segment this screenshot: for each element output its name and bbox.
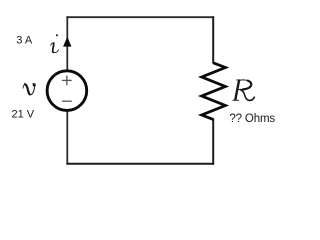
wire right upper xyxy=(212,16,214,63)
current arrow head xyxy=(63,37,71,47)
voltage source v circle xyxy=(47,71,87,111)
plus sign inside source xyxy=(62,76,72,86)
svg-text:?? Ohms: ?? Ohms xyxy=(229,113,275,125)
wire bottom xyxy=(66,163,214,165)
wire left lower xyxy=(66,109,68,165)
minus sign inside source xyxy=(62,100,72,102)
wire left upper xyxy=(66,16,68,72)
label v xyxy=(23,83,36,94)
wire top xyxy=(66,16,214,18)
wire right lower xyxy=(212,119,214,165)
label R xyxy=(233,80,254,101)
svg-text:3 A: 3 A xyxy=(16,35,33,47)
resistor R zigzag xyxy=(202,63,226,120)
label i xyxy=(51,34,59,52)
svg-text:21 V: 21 V xyxy=(12,109,35,121)
